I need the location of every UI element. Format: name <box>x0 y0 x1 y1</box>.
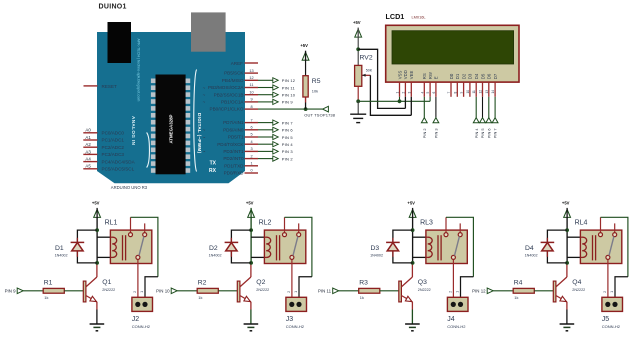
svg-text:0: 0 <box>250 169 252 173</box>
pin A1 PC1/ADC1 <box>83 135 124 143</box>
junction RV2-GND <box>356 99 360 103</box>
terminal PIN 4 <box>273 142 294 147</box>
svg-text:TX: TX <box>210 161 217 167</box>
transistor Q1 2N2222 <box>83 277 115 310</box>
power +5V (R5) <box>300 43 309 61</box>
resistor R2 1k <box>197 279 218 300</box>
wire LCD to PIN 6 <box>488 97 490 118</box>
pin 8 PB0/ICP1/CLKO <box>210 105 258 112</box>
svg-text:PB4/MISO: PB4/MISO <box>222 78 244 83</box>
svg-text:Q3: Q3 <box>418 279 427 286</box>
terminal OUT TSOP1738 <box>304 106 336 117</box>
terminal PIN 10 <box>156 288 177 294</box>
svg-text:2N2222: 2N2222 <box>572 288 585 292</box>
wire input to base resistor <box>23 290 43 292</box>
svg-text:PIN 11: PIN 11 <box>282 85 296 90</box>
pin 10 PB2/SS/OC1B <box>203 90 258 97</box>
terminal PIN 9 <box>5 288 24 294</box>
potentiometer RV2 50K <box>355 55 373 102</box>
svg-text:14: 14 <box>491 90 495 94</box>
svg-text:~: ~ <box>203 128 206 133</box>
svg-text:RV2: RV2 <box>360 55 373 62</box>
LCD display LCD1 LM016L <box>386 12 520 82</box>
svg-text:8: 8 <box>453 92 457 94</box>
LCD pin 3 VEE <box>407 70 414 96</box>
svg-text:1k: 1k <box>198 295 202 300</box>
LCD pin 14 D7 <box>491 73 498 97</box>
terminal PIN 4 <box>473 118 479 139</box>
svg-text:RL4: RL4 <box>575 220 588 227</box>
wire VDD net <box>358 49 405 108</box>
LCD pin 6 E <box>432 76 439 97</box>
svg-text:1N4002: 1N4002 <box>525 254 538 258</box>
LCD pin 11 D4 <box>472 73 479 97</box>
svg-text:1k: 1k <box>44 295 48 300</box>
svg-text:12: 12 <box>479 90 483 94</box>
wire diode loop <box>393 230 413 263</box>
svg-text:50K: 50K <box>366 68 373 72</box>
svg-text:5: 5 <box>426 92 430 94</box>
wire collector <box>566 263 568 277</box>
wire coil top <box>97 236 110 238</box>
svg-text:PD6/AIN0: PD6/AIN0 <box>223 127 244 132</box>
svg-text:RL3: RL3 <box>420 220 433 227</box>
svg-text:A2: A2 <box>85 142 91 147</box>
svg-text:7: 7 <box>447 92 451 94</box>
svg-text:A4: A4 <box>85 157 91 162</box>
svg-text:RS: RS <box>422 73 427 79</box>
junction bottom <box>249 261 253 265</box>
transistor Q2 2N2222 <box>237 277 269 310</box>
svg-text:PIN 9: PIN 9 <box>282 100 294 105</box>
svg-text:+5V: +5V <box>300 43 308 48</box>
wire pin 6 <box>258 129 273 131</box>
svg-text:PC5/ADC5/SCL: PC5/ADC5/SCL <box>102 167 135 172</box>
wire diode loop <box>547 230 567 263</box>
wire coil bottom <box>567 256 580 258</box>
wire diode loop <box>231 230 251 263</box>
terminal PIN 7 <box>273 120 294 125</box>
svg-text:DUINO1: DUINO1 <box>99 4 127 11</box>
pin 7 PD7/AIN1 <box>223 118 258 125</box>
wire collector <box>96 263 98 277</box>
svg-text:PIN 12: PIN 12 <box>282 78 296 83</box>
wire emitter to ground <box>566 310 568 325</box>
svg-text:1: 1 <box>610 291 614 293</box>
Arduino Uno board DUINO1 <box>97 32 245 183</box>
wire emitter to ground <box>96 310 98 325</box>
svg-text:2: 2 <box>250 154 252 158</box>
svg-text:2N2222: 2N2222 <box>256 288 269 292</box>
svg-text:PIN 7: PIN 7 <box>282 120 294 125</box>
relay RL1 <box>105 217 152 301</box>
svg-text:PIN 5: PIN 5 <box>282 135 294 140</box>
svg-text:4: 4 <box>250 140 252 144</box>
svg-text:~: ~ <box>203 100 206 105</box>
svg-text:E: E <box>434 76 439 79</box>
svg-text:1: 1 <box>294 291 298 293</box>
wire RW to gnd net <box>429 97 431 102</box>
wire diode loop <box>77 230 97 263</box>
connector J5 CONN-H2 <box>602 291 623 329</box>
svg-text:D4: D4 <box>474 73 479 79</box>
junction +5V/VDD <box>356 47 360 51</box>
svg-text:A0: A0 <box>85 128 91 133</box>
wire coil bottom <box>251 256 264 258</box>
svg-text:6: 6 <box>250 126 252 130</box>
microcontroller chip ATMEGA328P <box>151 75 190 175</box>
resistor R1 1k <box>43 279 64 300</box>
wire pin 2 <box>258 158 273 160</box>
pin 9 PB1/OC1A <box>203 98 258 105</box>
svg-text:D4: D4 <box>525 245 534 252</box>
wire LCD to PIN 3 <box>435 97 437 118</box>
svg-text:PB2/SS/OC1B: PB2/SS/OC1B <box>214 92 244 97</box>
svg-text:~: ~ <box>203 135 206 140</box>
svg-text:APK-TECH | techno-apk.blogspot: APK-TECH | techno-apk.blogspot.com <box>136 39 140 102</box>
svg-text:2: 2 <box>133 291 137 293</box>
svg-text:CONN-H2: CONN-H2 <box>286 324 305 329</box>
junction top <box>95 228 99 232</box>
wire resistor to base <box>218 290 237 292</box>
ground <box>560 324 575 331</box>
pin A2 PC2/ADC2 <box>83 142 124 150</box>
wire coil top <box>567 236 580 238</box>
wire pin 8 to OUT node <box>258 108 323 110</box>
svg-text:Q2: Q2 <box>256 279 265 286</box>
svg-text:D0: D0 <box>449 73 454 79</box>
DC power jack <box>108 22 132 63</box>
svg-text:+5V: +5V <box>246 200 254 205</box>
svg-text:VSS: VSS <box>397 70 402 79</box>
svg-text:7: 7 <box>250 118 252 122</box>
wire relay NO contact <box>601 217 628 276</box>
wire pin 7 <box>258 122 273 124</box>
LCD pin 4 RS <box>420 73 427 97</box>
wire resistor to base <box>380 290 399 292</box>
wire relay NO contact <box>446 217 473 276</box>
svg-text:PC0/ADC0: PC0/ADC0 <box>102 131 125 136</box>
svg-text:PIN 12: PIN 12 <box>472 289 486 294</box>
resistor R3 1k <box>359 279 380 300</box>
junction bottom <box>565 261 569 265</box>
wire pin 5 <box>258 136 273 138</box>
svg-text:PIN 10: PIN 10 <box>156 289 170 294</box>
wire LCD to PIN 7 <box>494 97 496 118</box>
svg-text:J4: J4 <box>447 316 455 323</box>
svg-text:R5: R5 <box>312 78 321 85</box>
LCD pin 12 D5 <box>479 73 486 97</box>
wire VEE net (wiper) <box>370 75 411 115</box>
svg-text:9: 9 <box>460 92 464 94</box>
svg-text:PIN 7: PIN 7 <box>493 128 498 138</box>
svg-text:Q1: Q1 <box>102 279 111 286</box>
svg-text:PD4/T0/XCK: PD4/T0/XCK <box>217 142 244 147</box>
pin 2 PD2/INT0 <box>223 154 258 161</box>
svg-text:PD1/TXD: PD1/TXD <box>224 163 244 168</box>
LCD pin 7 D0 <box>447 73 454 97</box>
svg-text:10: 10 <box>249 90 253 94</box>
svg-text:R2: R2 <box>198 279 207 286</box>
terminal PIN 3 <box>433 118 439 139</box>
terminal PIN 3 <box>273 149 294 154</box>
power +5V (RL1 stage) <box>92 200 101 218</box>
svg-text:RX: RX <box>209 168 217 174</box>
wire NO to connector <box>615 277 628 302</box>
svg-text:OUT TSOP1738: OUT TSOP1738 <box>304 113 336 118</box>
wire NO to connector <box>299 277 312 302</box>
resistor R5 10k <box>303 76 321 109</box>
svg-text:VDD: VDD <box>403 70 408 79</box>
terminal PIN 12 <box>472 288 493 294</box>
wire LCD to PIN 4 <box>475 97 477 118</box>
pin A4 PC4/ADC4/SDA <box>83 157 135 165</box>
svg-text:PIN 4: PIN 4 <box>474 128 479 139</box>
svg-text:CONN-H2: CONN-H2 <box>447 324 466 329</box>
wire +5V rail <box>250 217 252 263</box>
pin 0 PD0/RXD <box>224 169 258 176</box>
svg-text:2N2222: 2N2222 <box>418 288 431 292</box>
svg-text:+5V: +5V <box>92 200 100 205</box>
wire VDD drop <box>404 97 406 109</box>
svg-text:LCD1: LCD1 <box>386 12 405 21</box>
svg-text:PD0/RXD: PD0/RXD <box>224 171 245 176</box>
svg-text:ARDUINO UNO R3: ARDUINO UNO R3 <box>111 185 148 190</box>
svg-text:6: 6 <box>432 92 436 94</box>
svg-text:1: 1 <box>456 291 460 293</box>
label DUINO1 <box>99 4 127 11</box>
terminal PIN 2 <box>421 118 427 139</box>
svg-text:A1: A1 <box>85 135 91 140</box>
svg-text:PIN 6: PIN 6 <box>282 128 294 133</box>
LCD pin 1 VSS <box>396 70 403 96</box>
junction top <box>249 228 253 232</box>
wire collector <box>411 263 413 277</box>
ground <box>90 324 105 331</box>
ground <box>405 324 420 331</box>
relay RL3 <box>420 217 467 301</box>
svg-text:~: ~ <box>203 149 206 154</box>
LCD pin 8 D1 <box>453 73 460 97</box>
svg-text:1N4002: 1N4002 <box>209 254 222 258</box>
diode D4 1N4002 <box>525 238 555 258</box>
svg-text:PB5/SCK: PB5/SCK <box>224 71 244 76</box>
svg-text:PC4/ADC4/SDA: PC4/ADC4/SDA <box>102 159 136 164</box>
svg-text:D3: D3 <box>468 73 473 79</box>
svg-text:1N4002: 1N4002 <box>55 254 68 258</box>
svg-text:11: 11 <box>472 90 476 94</box>
diode D1 1N4002 <box>55 238 85 258</box>
svg-text:PB0/ICP1/CLKO: PB0/ICP1/CLKO <box>210 107 244 112</box>
svg-text:RW: RW <box>428 71 433 79</box>
pin 5 PD5/T1 <box>203 133 258 140</box>
wire pin 12 <box>258 79 273 81</box>
svg-text:R1: R1 <box>44 279 53 286</box>
svg-text:PIN 10: PIN 10 <box>282 93 296 98</box>
svg-text:CONN-H2: CONN-H2 <box>132 324 151 329</box>
junction bottom <box>95 261 99 265</box>
svg-text:J3: J3 <box>286 316 294 323</box>
terminal PIN 9 <box>273 99 294 104</box>
svg-text:13: 13 <box>249 69 253 73</box>
wire coil top <box>251 236 264 238</box>
svg-text:PC1/ADC1: PC1/ADC1 <box>102 138 125 143</box>
connector J4 CONN-H2 <box>447 291 468 329</box>
pin 12 PB4/MISO <box>222 76 258 83</box>
diode D2 1N4002 <box>209 238 239 258</box>
wire +5V to RV2 <box>357 37 359 65</box>
svg-text:D1: D1 <box>455 73 460 79</box>
transistor Q3 2N2222 <box>399 277 431 310</box>
wire LCD to PIN 2 <box>423 97 425 118</box>
svg-text:Q4: Q4 <box>572 279 581 286</box>
svg-text:~: ~ <box>203 93 206 98</box>
ground <box>244 324 259 331</box>
svg-text:9: 9 <box>250 98 252 102</box>
power +5V (RV2) <box>353 20 362 37</box>
svg-text:PIN 2: PIN 2 <box>282 156 294 161</box>
svg-text:PIN 11: PIN 11 <box>318 289 332 294</box>
terminal PIN 11 <box>318 288 339 294</box>
svg-text:R4: R4 <box>514 279 523 286</box>
junction VSS-GND <box>398 99 402 103</box>
wire relay NO contact <box>285 217 312 276</box>
svg-text:PD2/INT0: PD2/INT0 <box>223 156 244 161</box>
wire pin 9 <box>258 101 273 103</box>
svg-text:PD5/T1: PD5/T1 <box>228 135 244 140</box>
svg-text:4: 4 <box>420 92 424 94</box>
relay RL2 <box>259 217 306 301</box>
svg-text:~: ~ <box>203 85 206 90</box>
diode D3 1N4002 <box>370 238 400 258</box>
terminal PIN 6 <box>486 118 492 139</box>
wire collector <box>250 263 252 277</box>
terminal PIN 6 <box>273 127 294 132</box>
svg-text:R3: R3 <box>359 279 368 286</box>
svg-text:13: 13 <box>485 90 489 94</box>
wire to ground <box>357 101 359 114</box>
pin AREF <box>231 61 258 66</box>
terminal PIN 5 <box>273 134 294 139</box>
svg-text:D3: D3 <box>371 245 380 252</box>
pin 11 PB3/MOSI/OC2A <box>203 83 258 90</box>
junction top <box>565 228 569 232</box>
svg-text:PIN 5: PIN 5 <box>480 128 485 138</box>
svg-text:A5: A5 <box>85 164 91 169</box>
wire relay NO contact <box>131 217 158 276</box>
label TX <box>210 161 217 167</box>
svg-text:PIN 4: PIN 4 <box>282 142 294 147</box>
LCD pin 9 D2 <box>460 73 467 97</box>
svg-text:PIN 3: PIN 3 <box>282 149 294 154</box>
svg-text:PIN 6: PIN 6 <box>486 128 491 138</box>
wire resistor to base <box>534 290 553 292</box>
power +5V (RL2 stage) <box>246 200 255 218</box>
svg-text:A3: A3 <box>85 149 91 154</box>
svg-text:8: 8 <box>250 105 252 109</box>
pin A0 PC0/ADC0 <box>83 128 124 136</box>
svg-text:2: 2 <box>287 291 291 293</box>
pin 3 PD3/INT1 <box>203 147 258 154</box>
svg-text:+5V: +5V <box>407 200 415 205</box>
svg-text:D1: D1 <box>55 245 64 252</box>
svg-text:12: 12 <box>249 76 253 80</box>
svg-text:PC3/ADC3: PC3/ADC3 <box>102 152 125 157</box>
wire coil bottom <box>413 256 426 258</box>
svg-text:1: 1 <box>140 291 144 293</box>
svg-text:D6: D6 <box>487 73 492 79</box>
svg-text:RL2: RL2 <box>259 220 272 227</box>
power +5V (RL3 stage) <box>407 200 416 218</box>
svg-text:1k: 1k <box>360 295 364 300</box>
svg-text:PIN 3: PIN 3 <box>434 128 439 138</box>
wire input to base resistor <box>177 290 197 292</box>
label RX <box>209 168 217 174</box>
svg-text:PIN 9: PIN 9 <box>5 289 17 294</box>
transistor Q4 2N2222 <box>553 277 585 310</box>
svg-text:2N2222: 2N2222 <box>102 288 115 292</box>
terminal PIN 7 <box>492 118 498 139</box>
wire pin 11 <box>258 87 273 89</box>
svg-text:3: 3 <box>250 147 252 151</box>
junction node R5/OUT <box>304 107 308 111</box>
terminal PIN 5 <box>480 118 486 139</box>
terminal PIN 12 <box>273 78 296 83</box>
label ARDUINO UNO R3 <box>111 185 148 190</box>
svg-text:10k: 10k <box>312 89 318 94</box>
svg-text:ANALOG IN: ANALOG IN <box>131 116 136 146</box>
pin A3 PC3/ADC3 <box>83 149 124 157</box>
pin 4 PD4/T0/XCK <box>217 140 258 147</box>
LCD pin 2 VDD <box>401 70 408 97</box>
svg-text:2: 2 <box>603 291 607 293</box>
wire pin 10 <box>258 94 273 96</box>
svg-text:1: 1 <box>396 92 400 94</box>
svg-text:ATMEGA328P: ATMEGA328P <box>169 114 174 143</box>
svg-text:5: 5 <box>250 133 252 137</box>
wire coil top <box>413 236 426 238</box>
svg-text:LM016L: LM016L <box>412 14 427 19</box>
svg-text:PC2/ADC2: PC2/ADC2 <box>102 145 125 150</box>
svg-text:D5: D5 <box>480 73 485 79</box>
pin 13 PB5/SCK <box>224 69 258 76</box>
ground (RV2) <box>350 114 366 122</box>
svg-text:PD7/AIN1: PD7/AIN1 <box>223 120 244 125</box>
relay RL4 <box>575 217 622 301</box>
wire GND net (VSS/RW) <box>358 100 430 102</box>
svg-text:PIN 2: PIN 2 <box>422 128 427 138</box>
terminal PIN 11 <box>273 85 296 90</box>
junction bottom <box>411 261 415 265</box>
svg-text:PD3/INT1: PD3/INT1 <box>223 149 244 154</box>
resistor R4 1k <box>513 279 534 300</box>
wire input to base resistor <box>493 290 513 292</box>
svg-text:+5V: +5V <box>353 20 361 25</box>
svg-text:PB3/MOSI/OC2A: PB3/MOSI/OC2A <box>208 85 244 90</box>
junction top <box>411 228 415 232</box>
svg-text:D7: D7 <box>493 73 498 79</box>
wire NO to connector <box>461 277 474 302</box>
terminal PIN 2 <box>273 156 294 161</box>
wire +5V rail <box>96 217 98 263</box>
svg-text:2: 2 <box>448 291 452 293</box>
svg-text:J5: J5 <box>602 316 610 323</box>
pin 6 PD6/AIN0 <box>203 126 258 133</box>
pin RESET <box>84 84 118 89</box>
svg-text:RL1: RL1 <box>105 220 118 227</box>
wire resistor to base <box>64 290 83 292</box>
svg-text:CONN-H2: CONN-H2 <box>602 324 621 329</box>
